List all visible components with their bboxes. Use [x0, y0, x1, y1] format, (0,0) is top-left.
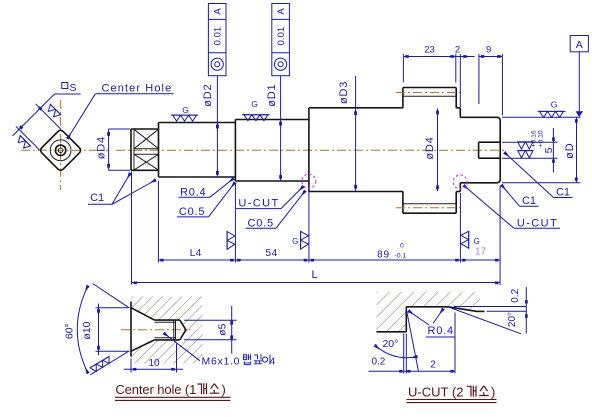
CENTER HOLE DETAIL (bottom left) — [121, 297, 203, 364]
svg-text:ø10: ø10 — [81, 321, 93, 339]
u-cut groove left wall — [405, 307, 407, 332]
svg-text:G: G — [292, 237, 298, 246]
svg-text:-0.1: -0.1 — [395, 252, 407, 259]
finish mark on 60deg line — [90, 356, 112, 373]
svg-text:ø5: ø5 — [216, 323, 228, 335]
u-cut circle right — [453, 175, 467, 189]
dim line o5 — [231, 306, 233, 354]
dim line oD — [576, 117, 578, 183]
svg-text:G: G — [551, 100, 558, 110]
S 45deg dimension line — [13, 94, 55, 136]
svg-text:U-CUT: U-CUT — [517, 217, 558, 229]
countersink face line — [130, 302, 132, 357]
S label underline — [55, 93, 81, 95]
svg-text:G: G — [182, 105, 189, 115]
svg-text:C1: C1 — [556, 187, 570, 199]
u-cut circle left — [302, 174, 316, 188]
svg-text:A: A — [213, 8, 224, 15]
svg-text:øD4: øD4 — [424, 136, 436, 159]
svg-text:Center Hole: Center Hole — [102, 83, 173, 95]
ext lines slot 5 — [502, 141, 558, 143]
svg-text:L: L — [311, 269, 317, 281]
svg-text:2: 2 — [455, 45, 460, 56]
label square S — [62, 83, 68, 89]
countersink cone — [131, 308, 155, 320]
dimension line L — [132, 282, 501, 284]
left 0.2 ext lines — [403, 334, 405, 374]
finish mark on S dim upper — [46, 104, 61, 119]
END VIEW DIMENSIONS — [13, 82, 174, 171]
svg-text:C0.5: C0.5 — [179, 206, 205, 218]
60deg arc — [77, 286, 88, 373]
finish mark on S dim lower — [16, 136, 31, 151]
RIGHT END DIMENSIONS — [464, 100, 581, 230]
svg-text:R0.4: R0.4 — [180, 186, 206, 198]
svg-text:A: A — [576, 39, 583, 51]
LEFT END VIEW — [21, 100, 109, 190]
detail1 centerline — [121, 329, 191, 331]
dim line oD2 — [216, 76, 218, 177]
gear pitch centerlines — [396, 92, 463, 94]
u-cut surface right — [477, 310, 485, 312]
svg-text:øD: øD — [564, 143, 576, 159]
ref line top — [454, 306, 527, 308]
svg-text:5: 5 — [543, 147, 555, 153]
20deg angle line from corner — [406, 309, 418, 372]
M6 leader — [164, 333, 200, 361]
G finish symbol above right end — [538, 111, 566, 117]
ext lines o5 — [184, 319, 237, 321]
20deg arc left — [375, 345, 417, 357]
svg-text:60°: 60° — [64, 323, 76, 339]
svg-text:10: 10 — [148, 358, 160, 369]
svg-text:R0.4: R0.4 — [428, 325, 454, 337]
svg-text:øD3: øD3 — [338, 81, 350, 104]
CENTER HOLE DETAIL DIMENSIONS — [64, 284, 276, 401]
centerline main shaft — [116, 149, 506, 151]
svg-text:C0.5: C0.5 — [248, 217, 274, 229]
TOP DIMENSIONS 23 2 9 — [403, 45, 502, 116]
svg-text:89: 89 — [377, 250, 390, 261]
end view center hole circle — [55, 145, 65, 155]
dim line oD4 right — [437, 108, 439, 191]
finish mark on ext line 309 with G — [301, 231, 309, 250]
extension line D1/D3 — [308, 188, 310, 263]
20deg slant line — [449, 307, 522, 334]
ext lines o10 — [96, 307, 129, 309]
S ext line top — [36, 104, 62, 130]
ext line neck — [459, 54, 461, 107]
ext line gear left — [402, 54, 404, 82]
datum frame A — [570, 36, 588, 52]
finish symbol G above oD1 — [242, 115, 270, 121]
slot (center hole) in right end — [479, 142, 501, 158]
svg-text:20°: 20° — [382, 338, 398, 350]
tolerance frame 2 (runout 0.01 A) — [272, 4, 290, 76]
dim line 0.2 and 2 — [369, 370, 456, 372]
svg-text:A: A — [276, 8, 287, 15]
svg-text:M6x1.0: M6x1.0 — [202, 356, 240, 368]
dim line o10 — [98, 304, 100, 356]
extension line D3/D right — [459, 193, 461, 263]
dim line oD1 — [280, 76, 282, 181]
svg-text:23: 23 — [424, 45, 435, 56]
finish mark on ext line 235 — [227, 231, 235, 250]
caption underlines — [115, 396, 231, 398]
S ext line left — [16, 126, 40, 150]
end view square (rotated) — [41, 130, 81, 170]
svg-text:øD1: øD1 — [266, 84, 278, 107]
gear section on D3 — [403, 88, 456, 214]
svg-text:0.2: 0.2 — [371, 357, 385, 368]
svg-text:øD4: øD4 — [96, 136, 108, 159]
shaft section D3 — [309, 108, 403, 192]
end view centerlines — [21, 149, 109, 151]
dim line 23 and 2 — [403, 56, 474, 58]
extension line from square section — [131, 172, 133, 285]
extension line right face — [499, 186, 501, 286]
neck ledge between gear and right journal — [456, 108, 460, 192]
dim line oD3 — [355, 76, 357, 191]
svg-text:U-CUT: U-CUT — [238, 198, 279, 210]
DATUM A — [570, 36, 588, 118]
dim line 5 — [552, 128, 554, 173]
svg-text:17: 17 — [475, 247, 487, 258]
ext lines oD — [502, 116, 581, 118]
svg-text:0.01: 0.01 — [276, 27, 287, 46]
datum leader — [578, 52, 580, 112]
svg-text:9: 9 — [486, 45, 491, 56]
hatch detail2 — [377, 292, 481, 332]
end view pilot hole circle — [58, 148, 63, 153]
tolerance +0.16/+0.10 rotated — [530, 130, 544, 147]
dim oD4 left ext lines — [109, 128, 131, 130]
u-cut shoulder bottom line — [377, 331, 407, 333]
svg-text:L4: L4 — [190, 248, 202, 259]
60deg cone ext lines — [93, 284, 130, 309]
svg-text:2: 2 — [430, 360, 436, 371]
svg-text:+0.10: +0.10 — [537, 130, 544, 147]
U-CUT DETAIL DIMENSIONS — [369, 287, 528, 403]
BOTTOM DIMENSION CHAIN — [132, 172, 501, 286]
drill point — [180, 320, 186, 340]
ref line surface — [487, 310, 527, 312]
u-cut 20 deg ramp — [448, 307, 477, 312]
U-CUT DETAIL (bottom right) — [377, 292, 485, 332]
extension line D2/D1 — [234, 183, 236, 263]
svg-text:S: S — [70, 82, 77, 94]
dim line 9 — [479, 56, 503, 58]
finish mark on ext line 460 with G — [461, 231, 469, 249]
square section left end — [131, 129, 159, 170]
tapped hole cylinder — [155, 319, 180, 321]
svg-text:øD2: øD2 — [202, 84, 214, 107]
dim line oD4 left — [108, 129, 110, 170]
svg-text:U-CUT (2: U-CUT (2 — [408, 384, 464, 399]
dimension line L4 54 89 17 — [158, 259, 500, 261]
ext line right face top — [501, 54, 503, 116]
svg-text:): ) — [491, 384, 495, 399]
svg-text:G: G — [251, 99, 258, 109]
svg-text:Center hole (1: Center hole (1 — [115, 382, 196, 397]
svg-text:0: 0 — [400, 242, 404, 249]
dim line 0.2 right — [525, 287, 527, 334]
ext line slot bottom — [478, 54, 480, 104]
end view outer circle — [50, 140, 71, 161]
svg-text:C1: C1 — [522, 195, 536, 207]
finish symbol G above oD2 — [171, 115, 199, 121]
ext line gear right — [455, 54, 457, 83]
shaft section D1 — [235, 120, 309, 182]
DIAMETER DIMENSIONS ON SHAFT — [88, 4, 439, 230]
svg-text:4: 4 — [270, 356, 276, 368]
u-cut groove floor — [406, 306, 448, 308]
svg-text:0.2: 0.2 — [510, 288, 521, 302]
svg-text:0.01: 0.01 — [213, 27, 224, 46]
svg-text:C1: C1 — [90, 192, 104, 204]
svg-text:20°: 20° — [507, 312, 518, 327]
hatch detail1 — [131, 297, 203, 364]
ticks bottom chain — [160, 259, 498, 262]
tolerance frame 1 (runout 0.01 A) — [208, 4, 226, 76]
ext lines 10 — [130, 359, 132, 373]
extension line D2 left — [157, 181, 159, 263]
svg-text:): ) — [222, 382, 226, 397]
shaft section D2 — [159, 123, 236, 178]
2 ext line — [454, 313, 456, 374]
svg-text:54: 54 — [266, 248, 278, 259]
finish marks at slot dim — [518, 142, 534, 158]
right end section D — [460, 117, 500, 183]
MAIN SHAFT VIEW — [116, 88, 506, 214]
svg-text:G: G — [474, 237, 480, 246]
dim line 10 — [124, 368, 183, 370]
